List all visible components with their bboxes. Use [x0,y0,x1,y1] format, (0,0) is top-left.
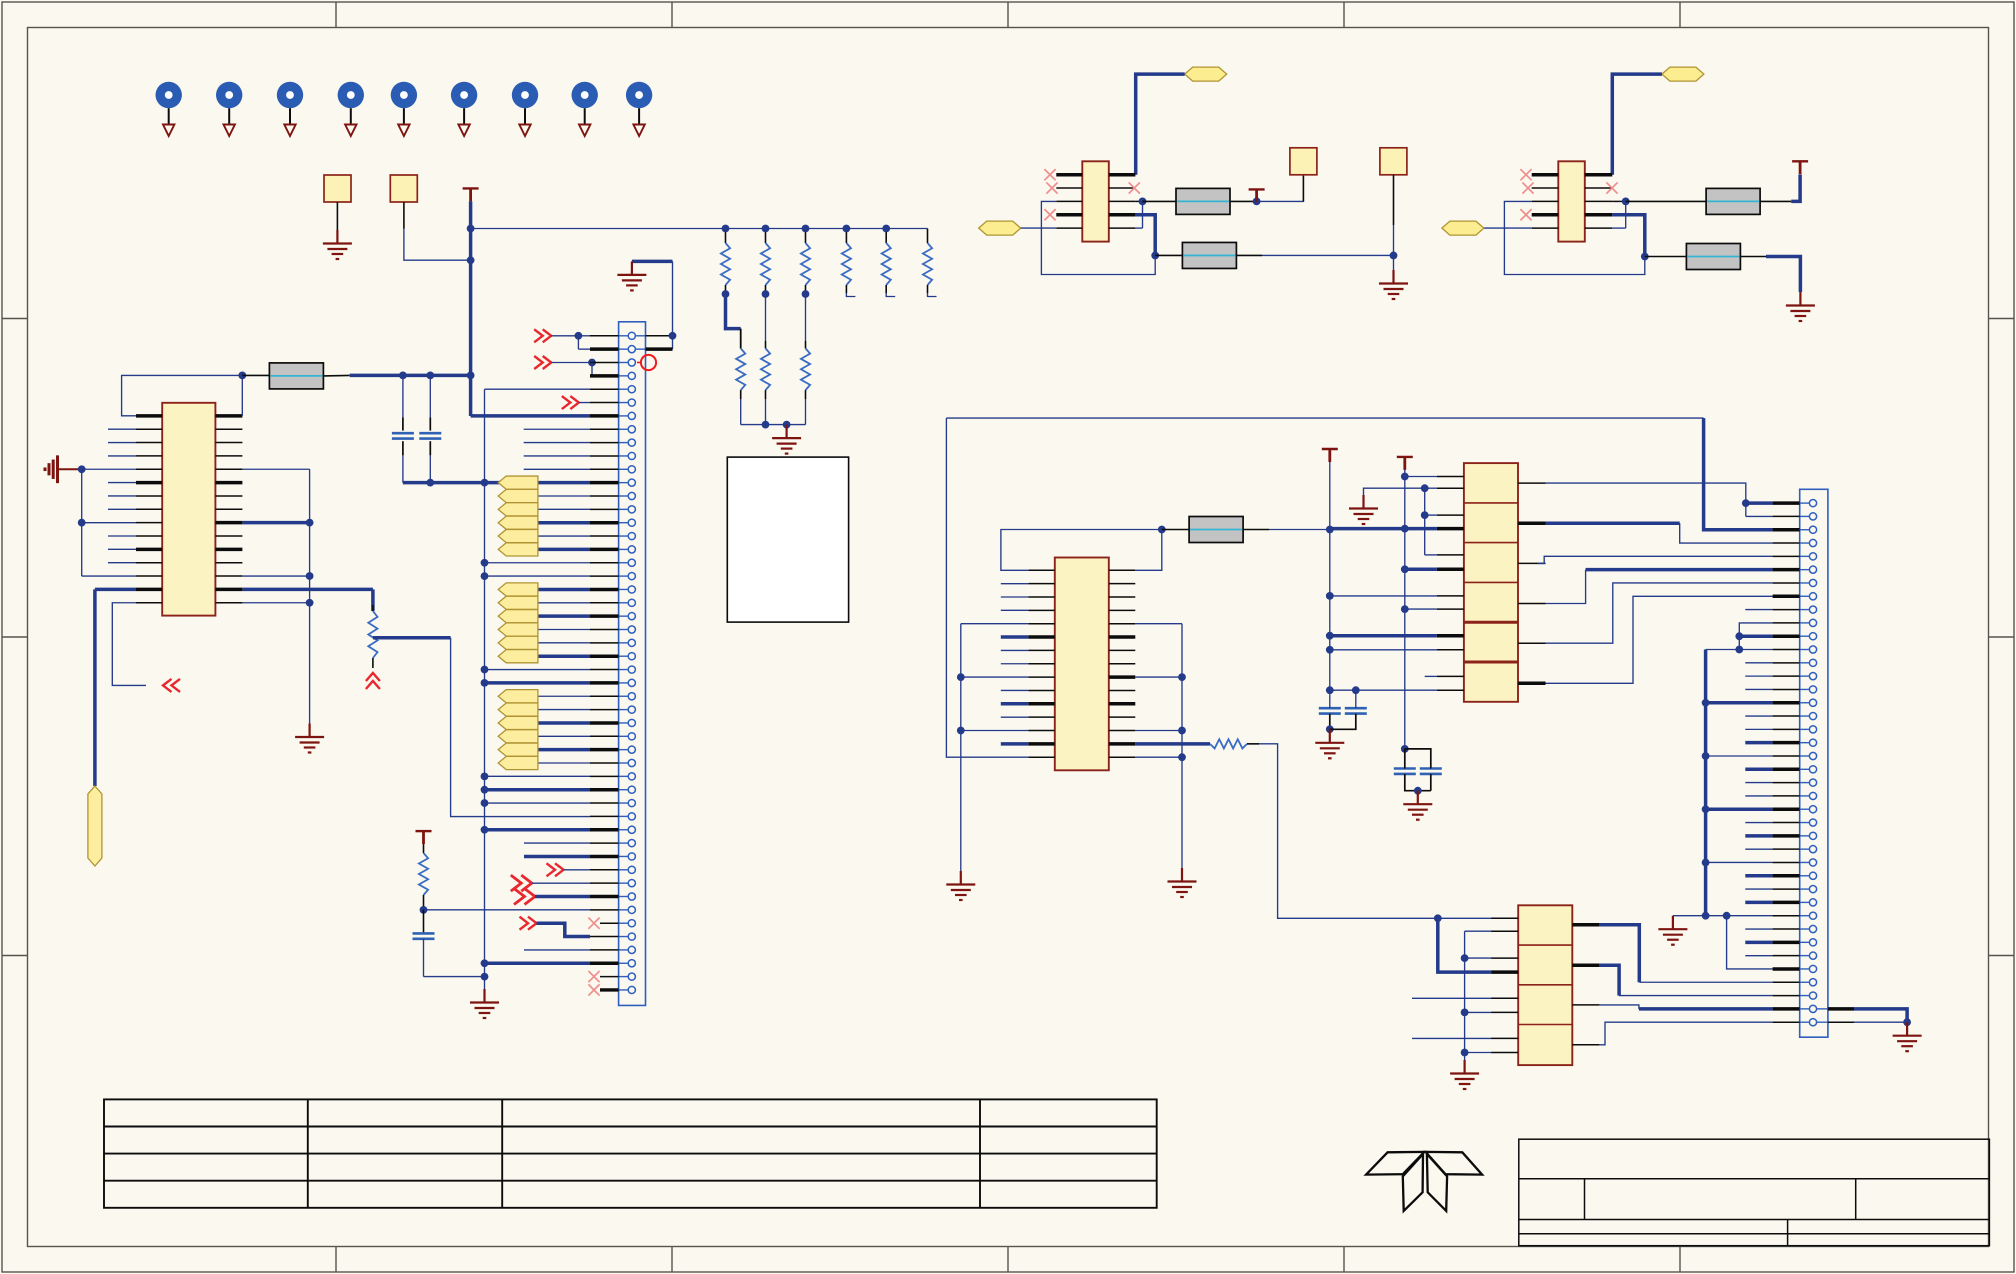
connector J1 pin 15 [628,519,635,526]
IC U5 pin L5 [1532,227,1559,229]
resistor R7 lead [1143,200,1177,202]
wire [1465,1052,1492,1054]
resistor R9 [1706,188,1760,214]
wire rail [484,389,486,989]
connector J1 pin 12 [628,479,635,486]
wire [424,976,485,978]
wire [538,762,590,764]
pin wire [1773,688,1800,690]
wire stub [1745,901,1772,905]
IC U1 pin R1 [215,414,242,418]
connector J1 pin 39 [628,840,635,847]
resistor network RN1 pin L11 [1437,675,1464,677]
IC U1 pin R8 [215,508,242,510]
wire [1262,254,1394,256]
IC U1 pin L9 [136,522,162,524]
pin wire [600,976,619,978]
off-page connector [534,356,551,369]
pin wire [590,455,619,457]
IC U1 pin L2 [136,428,162,430]
connector J1 pin 24 [628,639,635,646]
junction [1903,1018,1911,1026]
wire [1329,462,1331,694]
IC U2 pin R5 [1109,623,1136,625]
wire stub [928,293,937,297]
junction [588,359,596,367]
IC U1 pin L13 [136,575,162,577]
connector J1 pin 23 [628,626,635,633]
capacitor C7 [1420,769,1442,774]
no-connect X [1044,209,1055,220]
wire [1465,930,1492,932]
wire [1393,255,1395,270]
wire [1854,1009,1907,1022]
connector J2 pin 35 [1809,952,1816,959]
IC U2 pin L4 [1028,609,1055,611]
IC U1 pin L12 [136,562,162,564]
power rail [1397,457,1413,470]
IC U2 pin L9 [1028,676,1055,678]
pin wire [1773,715,1800,717]
connector J1 pin 3 [628,359,635,366]
pin wire [1773,941,1800,945]
resistor network RN1 pin R2 [1518,521,1546,525]
wire [1405,476,1437,478]
IC U5 pin L4 [1532,213,1559,217]
net port P1 [324,175,351,202]
connector J2 pin 11 [1809,633,1816,640]
resistor R7 [1176,188,1230,214]
wire stub [108,455,136,457]
wire [1599,965,1619,995]
resistor network RN1 pin L12 [1437,689,1464,691]
resistor network RN2 pin L5 [1491,997,1518,999]
resistor network RN1 pin R6 [1518,682,1546,686]
wire [1706,755,1773,757]
wire [242,521,309,525]
wire [429,375,431,417]
wire [1484,227,1532,229]
resistor R5 lead [1162,529,1189,531]
resistor RN8 [765,341,767,348]
ground [1315,729,1344,758]
net flag [498,596,538,609]
test point TP7 [512,82,538,136]
IC U1 pin L8 [136,508,162,510]
junction [481,679,489,687]
IC U4 pin R4 [1109,213,1136,217]
wire [1330,649,1437,651]
resistor network RN1 pin R4 [1518,603,1546,605]
wire [1330,689,1437,691]
connector J1 pin 25 [628,653,635,660]
pin wire [590,709,619,711]
IC U1 pin L14 [136,588,162,592]
net port P4 [1380,148,1407,175]
resistor network RN2 pin R3 [1572,1004,1599,1006]
IC U2 pin R9 [1109,675,1136,679]
resistor R2 [269,363,323,389]
pin wire [590,828,619,832]
no-connect X [1606,182,1617,193]
wire [538,614,590,618]
connector J1 pin 31 [628,733,635,740]
pin wire [1773,848,1800,850]
wire [538,602,590,604]
pin wire [1773,834,1800,838]
wire [946,417,1703,419]
connector J1 pin 16 [628,532,635,539]
wire [403,481,590,485]
wire stub [846,293,855,297]
wire stub [1001,635,1029,639]
pin wire [590,508,619,510]
IC U2 pin L7 [1028,649,1055,651]
connector J1 pin 7 [628,412,635,419]
connector J2 pin 18 [1809,726,1816,733]
wire [309,469,311,723]
connector J1 pin 5 [628,386,635,393]
wire [424,909,591,911]
wire [961,623,1029,625]
connector J1 pin 10 [628,452,635,459]
wire [1599,925,1639,983]
wire [538,721,590,725]
wire [538,521,590,525]
wire [765,294,767,341]
wire stub [1001,716,1029,718]
off-page connector [366,673,380,689]
IC U1 pin R13 [215,575,242,577]
junction [1401,525,1409,533]
capacitor C4 lead [1329,714,1331,730]
pin wire [590,388,619,390]
wire [1135,215,1155,256]
wire [1586,568,1773,572]
connector J2 pin 29 [1809,872,1816,879]
wire [535,895,590,899]
wire [1619,995,1773,997]
net label [1442,221,1484,235]
wire stub [1745,795,1772,797]
connector J1 pin 41 [628,866,635,873]
wire stub [1001,689,1029,691]
pin wire [590,721,619,725]
connector J1 pin 27 [628,679,635,686]
junction [1326,646,1334,654]
connector J1 pin 20 [628,586,635,593]
resistor R10 lead [1645,256,1687,258]
net flag [498,476,538,489]
wire stub [1745,941,1772,945]
ground [617,261,646,290]
junction [1735,646,1743,654]
wire [741,424,806,426]
IC U1 pin R11 [215,548,242,552]
wire [350,374,471,378]
revision table [104,1099,1157,1207]
wire [1546,570,1586,604]
IC U1 pin L4 [136,455,162,457]
wire [242,588,373,592]
wire [1612,215,1645,257]
pin wire [590,575,619,577]
wire [485,828,591,832]
junction [762,225,770,233]
IC U2 pin R8 [1109,663,1136,665]
net flag [498,610,538,623]
resistor network RN1 divider [1464,542,1518,544]
wire [1330,634,1437,638]
connector J2 pin 9 [1809,606,1816,613]
connector J1 pin 29 [628,706,635,713]
wire [1269,529,1330,531]
junction [1390,252,1398,260]
junction [1461,1049,1469,1057]
off-page connector [514,889,535,905]
wire [1706,861,1773,863]
test point TP8 [572,82,598,136]
ground [1403,791,1432,820]
net flag [498,489,538,502]
IC U5 pin R1 [1585,173,1613,177]
connector J2 pin 32 [1809,912,1816,919]
pin wire [1773,528,1800,532]
connector J1 pin 32 [628,746,635,753]
wire [471,228,928,230]
net flag [498,703,538,716]
connector J1 pin 9 [628,439,635,446]
pin wire [1773,768,1800,772]
junction [481,973,489,981]
resistor network RN2 pin L7 [1491,1037,1518,1039]
junction [306,572,314,580]
wire [532,882,590,884]
no-connect X [1522,182,1533,193]
connector J2 pin 13 [1809,659,1816,666]
pin wire [590,681,619,685]
IC U4 [1082,161,1109,241]
connector J1 pin 46 [628,933,635,940]
junction [762,290,770,298]
resistor network RN1 pin L9 [1437,634,1464,638]
wire stub [524,455,590,457]
junction [481,572,489,580]
net flag [498,716,538,729]
resistor RN5 [885,229,887,244]
net label [1185,67,1227,81]
wire [564,869,591,871]
connector J1 pin 4 [628,372,635,379]
no-connect X [588,984,599,995]
ground [1658,916,1687,945]
wire [1599,1005,1639,1009]
resistor R6 lead [1247,743,1259,745]
connector J2 pin 28 [1809,859,1816,866]
resistor R5 lead [1243,529,1269,531]
wire [538,695,590,697]
junction [467,256,475,264]
junction [1723,912,1731,920]
wire [485,775,591,777]
connector J2 pin 3 [1809,526,1816,533]
junction [722,290,730,298]
resistor network RN2 [1518,905,1572,1065]
wire stub [1001,596,1029,598]
pin wire [590,347,619,351]
off-page connector [163,679,180,692]
wire [485,669,591,671]
resistor network RN1 pin L3 [1437,514,1464,516]
wire [1041,201,1155,274]
pin wire [590,962,619,966]
capacitor C3 lead [423,910,425,934]
wire stub [108,482,136,484]
IC U2 pin R13 [1109,730,1136,732]
wire [961,730,1029,732]
wire stub [1745,675,1772,677]
connector J2 pin 22 [1809,779,1816,786]
junction [306,519,314,527]
resistor R1 lead [242,374,269,376]
wire [1612,227,1625,229]
IC U5 pin L1 [1532,173,1559,177]
IC U1 pin R6 [215,481,242,485]
pin wire [590,588,619,592]
junction [1326,725,1334,733]
test point TP3 [277,82,303,136]
connector J2 pin 16 [1809,699,1816,706]
ground [1349,495,1378,524]
net port P2 [390,175,417,202]
connector J1 pin 13 [628,492,635,499]
pin wire [590,521,619,525]
IC U4 pin L3 [1056,200,1082,202]
wire [82,575,136,577]
connector J2 pin 24 [1809,806,1816,813]
junction [802,290,810,298]
wire stub [1001,649,1029,651]
junction [1735,632,1743,640]
connector J2 pin 25 [1809,819,1816,826]
wire [469,201,473,416]
wire stub [1001,663,1029,665]
connector J1 pin 38 [628,826,635,833]
wire [538,748,590,752]
pin wire [590,414,619,418]
pin wire [1773,622,1800,624]
pin wire [590,949,619,951]
junction [1326,592,1334,600]
power rail [1249,189,1265,202]
IC U2 pin L8 [1028,663,1055,665]
wire [578,335,590,337]
pin wire [1773,782,1800,784]
pin wire [1773,967,1800,971]
resistor network RN1 pin L2 [1437,487,1464,489]
wire stub [1425,675,1437,677]
resistor network RN2 pin L3 [1491,957,1518,959]
connector J1 pin 33 [628,759,635,766]
wire stub [1001,609,1029,611]
connector J1 pin 34 [628,773,635,780]
wire [538,548,590,552]
wire [1135,756,1182,758]
wire [1135,530,1162,571]
resistor RN2 [765,229,767,244]
IC U2 pin R2 [1109,583,1136,585]
test point TP6 [451,82,477,136]
wire [1425,514,1437,516]
wire stub [524,468,590,470]
wire [1136,74,1185,175]
connector J1 pin 28 [628,693,635,700]
wire [82,468,136,470]
junction [575,332,583,340]
connector J1 pin 42 [628,880,635,887]
connector J2 pin 5 [1809,553,1816,560]
junction [426,479,434,487]
pin wire [590,602,619,604]
net flag [498,756,538,769]
wire [1393,175,1395,225]
wire stub [1745,728,1772,730]
pin wire [1773,609,1800,611]
IC U2 pin R3 [1109,596,1136,598]
resistor R7 lead [1230,200,1257,202]
wire [946,418,1028,757]
junction [1158,526,1166,534]
wire [402,455,404,482]
connector J1 [619,322,646,1006]
ground [1450,1060,1479,1089]
net flag [498,516,538,529]
wire [1706,701,1773,705]
IC U1 pin R15 [215,602,242,604]
junction [1401,745,1409,753]
resistor network RN1 divider [1464,581,1518,583]
pin wire [1773,634,1800,638]
wire [1739,623,1772,636]
junction [481,559,489,567]
wire [242,575,309,577]
wire [672,261,674,349]
capacitor C4 [1319,708,1341,713]
net label [1662,67,1704,81]
connector J1 pin 19 [628,573,635,580]
resistor network RN2 pin R4 [1572,1044,1599,1046]
wire [451,638,590,817]
junction [1326,632,1334,640]
wire [471,414,590,418]
connector J1 pin 1 [628,332,635,339]
net flag [498,543,538,556]
wire [95,588,136,592]
connector J1 pin 21 [628,599,635,606]
junction [1151,252,1159,260]
pin wire [590,654,619,658]
pin wire [590,442,619,444]
IC U2 pin L14 [1028,742,1055,746]
resistor network RN1 pin L4 [1437,527,1464,531]
wire [960,624,962,871]
wire [112,603,146,686]
pin wire [1773,501,1800,505]
wire [1135,676,1182,678]
company logo [1366,1152,1482,1211]
wire [726,294,741,329]
power rail VCC [463,188,479,201]
